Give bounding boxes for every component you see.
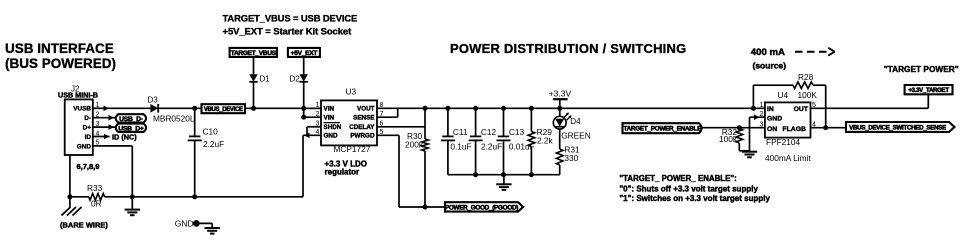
svg-text:GREEN: GREEN [561,130,591,140]
R29 bottom lead [530,147,532,175]
svg-text:VBUS_DEVICE_SWITCHED_SENSE: VBUS_DEVICE_SWITCHED_SENSE [849,124,946,131]
wire D1 to VBUS_DEVICE rail [253,82,255,109]
resistor R29 [528,132,535,147]
svg-text:C11: C11 [453,127,468,137]
svg-text:VBUS_DEVICE: VBUS_DEVICE [204,107,243,113]
wire SENSE up to VOUT [397,108,399,117]
svg-text:C12: C12 [481,127,497,137]
svg-text:FLAGB: FLAGB [783,126,806,133]
wire J2 GND right [104,145,132,147]
wire D4 to R31 [559,129,561,149]
svg-text:CDELAY: CDELAY [349,124,375,131]
svg-text:(source): (source) [753,60,787,70]
svg-text:"TARGET POWER": "TARGET POWER" [884,64,959,74]
svg-text:100K: 100K [798,90,818,100]
svg-text:D4: D4 [570,117,581,126]
regulator U3 body [321,100,377,145]
wire +5V_EXT to D2 [303,57,305,74]
wire U4 GND stub [750,116,765,118]
svg-text:VUSB: VUSB [73,106,91,113]
wire U4 GND down [749,117,751,151]
svg-text:C10: C10 [203,126,219,136]
wire SENSE stub [377,116,398,118]
net label POWER_GOOD_(PGOOD) [445,202,523,211]
connection arrow U3 GND pin [304,133,310,139]
wire D3 to VBUS_DEVICE label [158,107,201,109]
junction shield/earth [67,194,72,199]
J2 pin 3 stub [93,126,116,128]
junction pin2 [301,115,306,120]
svg-text:0R: 0R [91,199,102,209]
junction D2 / U3 [301,106,306,111]
net label USB_D- [116,114,146,122]
resistor R28 [793,82,813,89]
wire PWRGD stub [377,134,399,136]
wire C10 bottom lead [194,140,196,196]
wire pin3 to pin4 row [306,127,308,136]
svg-text:1: 1 [760,102,764,109]
wire PWRGD down [398,135,400,207]
R29 top lead [530,108,532,131]
svg-text:"1": Switches on +3.3 volt tar: "1": Switches on +3.3 volt target supply [619,194,770,203]
net label +3.3V_TARGET [905,85,953,94]
ground bus wire [105,196,303,198]
R28 left lead [753,84,793,86]
svg-text:POWER_GOOD_(PGOOD): POWER_GOOD_(PGOOD) [445,204,518,211]
svg-text:100k: 100k [719,134,738,144]
connection arrow ID stub [104,134,110,140]
J2 pin 1 stub [93,107,104,109]
svg-text:VOUT: VOUT [357,106,375,113]
svg-text:PWRGD: PWRGD [350,133,375,140]
wire to U3 pin1 [304,107,321,109]
wire R30 bottom lead [424,151,426,207]
C12 bottom lead [475,140,477,174]
svg-text:ON: ON [767,126,777,133]
junction C10 bottom [192,194,197,199]
connection arrow J2 pin1 [104,106,110,112]
wire PWRGD to label [399,206,445,208]
net label +5V_EXT [288,48,320,57]
capacitor C13 [498,135,509,137]
R32 bottom lead [738,143,740,151]
C11 bottom lead [447,140,449,174]
C11 top lead [447,108,449,136]
connection arrow U4 GND pin [754,114,760,120]
wire D2 to VBUS_DEVICE rail [303,82,305,109]
wire R30 top lead [424,108,426,139]
svg-text:R33: R33 [87,183,103,193]
J2 pin 5 stub [93,145,104,147]
svg-text:U3: U3 [346,87,357,97]
svg-text:USB MINI-B: USB MINI-B [58,91,98,100]
C13 top lead [503,108,505,136]
connection arrow USB_D+ [109,124,115,130]
legend wire [196,222,212,224]
svg-text:200k: 200k [405,140,424,150]
R28 left vertical [752,85,754,108]
gnd stem [503,175,505,185]
wire to U3 pin2 [304,116,321,118]
svg-text:USB INTERFACE: USB INTERFACE [5,41,114,56]
net label USB_D+ [116,124,146,132]
earth ground (bare wire) [69,197,71,207]
R31 bottom lead [559,165,561,175]
wire VOUT to rail [377,107,448,109]
svg-text:D2: D2 [290,75,301,84]
legend GND dot [193,220,200,227]
svg-text:2.2k: 2.2k [537,135,554,145]
R28 right vertical [825,85,827,128]
net label TARGET_POWER_ENABLE [623,123,702,133]
wire U4 FLAGB to sense label [811,127,847,129]
svg-text:VIN: VIN [324,106,335,113]
wire enable to U4 ON [702,127,765,129]
capacitor C10 [189,135,200,137]
svg-text:330: 330 [564,153,578,163]
load switch U4 body [765,102,811,137]
junction R30 bottom [423,205,428,210]
wire U3 pin4 stub [303,134,321,136]
svg-text:U4: U4 [778,90,789,100]
wire TARGET_VBUS to D1 [253,57,255,74]
wire J2 GND down [131,146,133,197]
svg-text:POWER DISTRIBUTION / SWITCHING: POWER DISTRIBUTION / SWITCHING [450,41,686,56]
legend ground symbol [205,227,220,229]
resistor R31 [556,149,563,165]
svg-text:VIN: VIN [324,115,335,122]
svg-text:D3: D3 [148,96,159,105]
svg-text:GND: GND [77,143,92,150]
J2 pin 2 stub [93,117,116,119]
capacitor C11 [442,135,453,137]
resistor R33 [89,194,105,201]
svg-text:FPF2104: FPF2104 [766,137,801,147]
legend gnd stem [211,223,213,228]
junction R30 top [423,106,428,111]
svg-text:GND: GND [324,133,338,140]
svg-text:+3.3V_TARGET: +3.3V_TARGET [908,87,949,94]
svg-text:USB_D-: USB_D- [119,116,143,123]
R28 right lead [813,84,826,86]
svg-text:TARGET_POWER_ENABLE: TARGET_POWER_ENABLE [623,126,702,133]
chassis gnd stem [131,197,133,209]
ground (digital) [125,209,140,211]
+3.3V rail wire [448,107,765,109]
svg-text:GND: GND [767,115,782,122]
wire C10 top lead [194,108,196,136]
svg-text:OUT: OUT [794,106,809,113]
svg-text:TARGET_VBUS: TARGET_VBUS [231,50,277,57]
wire CDELAY to R30 [377,126,425,128]
svg-text:MCP1727: MCP1727 [334,144,371,154]
junction R28/IN [751,106,756,111]
svg-text:D1: D1 [260,75,271,84]
wire shield to R33 [69,155,71,197]
svg-text:SHDN: SHDN [324,124,342,131]
svg-text:GND: GND [175,218,194,228]
wire down to pin2 row [303,108,305,117]
svg-text:2.2uF: 2.2uF [481,142,502,152]
svg-text:ID (NC): ID (NC) [112,133,137,142]
U3 SHDN overline [324,122,341,124]
svg-text:"0": Shuts off +3.3 volt targe: "0": Shuts off +3.3 volt target supply [619,185,758,194]
svg-text:"TARGET_ POWER_ ENABLE":: "TARGET_ POWER_ ENABLE": [619,174,736,183]
svg-text:D-: D- [84,115,91,122]
wire R32 bottom jog [739,150,749,152]
wire VUSB to D3 [104,107,150,109]
ground (U4) [742,151,757,153]
wire U3 pin3 stub [307,126,321,128]
svg-text:+3.3V: +3.3V [549,88,572,98]
svg-text:TARGET_VBUS = USB DEVICE: TARGET_VBUS = USB DEVICE [223,13,358,24]
C13 bottom lead [503,140,505,174]
ground (caps) [496,183,511,185]
net label TARGET_VBUS [230,48,277,57]
svg-text:ID: ID [85,134,92,141]
connector J2 body [65,99,93,155]
svg-text:+5V_EXT: +5V_EXT [291,50,318,57]
junction R28/FLAGB [823,125,828,130]
svg-text:(BARE WIRE): (BARE WIRE) [60,221,108,230]
net label VBUS_DEVICE_SWITCHED_SENSE [846,122,955,132]
dashed arrow [795,51,830,53]
svg-text:0.1uF: 0.1uF [450,142,471,152]
wire OUT up to +3.3V_TARGET [927,94,929,108]
diode D1 [249,74,257,82]
junction C10 top [192,106,197,111]
C12 top lead [475,108,477,136]
wire to R33 left [70,196,89,198]
J2 pin 4 stub [93,136,110,138]
junction R32 top [737,125,742,130]
wire U3 GND down [302,135,304,197]
diode D2 [300,74,308,82]
svg-text:C13: C13 [509,127,525,137]
resistor R32 [736,129,743,144]
cap ground bus [448,174,560,176]
connection arrow USB_D- [109,115,115,121]
diode D3 [150,104,158,113]
svg-text:2.2uF: 2.2uF [203,139,224,149]
svg-text:regulator: regulator [325,168,360,177]
capacitor C12 [470,135,481,137]
svg-text:(BUS POWERED): (BUS POWERED) [5,56,116,71]
net label VBUS_DEVICE [202,104,246,113]
svg-text:MBR0520L: MBR0520L [153,114,195,124]
LED D4 [559,108,561,116]
wire U4 OUT [811,107,929,109]
svg-text:USB_D+: USB_D+ [118,125,144,132]
svg-text:D+: D+ [83,125,92,132]
svg-text:IN: IN [767,106,774,113]
resistor R30 [422,139,429,151]
junction chassis gnd [130,194,135,199]
svg-text:SENSE: SENSE [353,115,374,122]
svg-text:400mA Limit: 400mA Limit [765,153,811,163]
svg-text:400 mA: 400 mA [751,47,785,58]
svg-text:6,7,8,9: 6,7,8,9 [77,162,100,171]
wire VBUS_DEVICE to U3 [245,107,321,109]
svg-text:+5V_EXT = Starter Kit Socket: +5V_EXT = Starter Kit Socket [223,27,353,38]
junction D1 bottom [251,106,256,111]
